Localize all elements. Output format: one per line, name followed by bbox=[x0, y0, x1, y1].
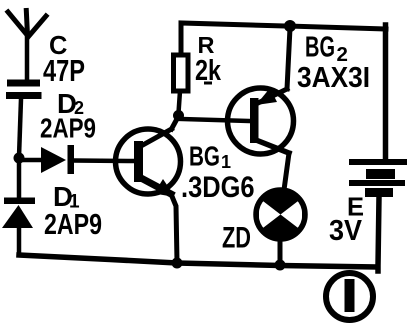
svg-text:1: 1 bbox=[221, 152, 231, 172]
figure mark circled 1 bbox=[326, 273, 373, 320]
svg-text:2AP9: 2AP9 bbox=[44, 209, 102, 241]
node A bbox=[14, 153, 25, 164]
svg-text:BG: BG bbox=[189, 141, 220, 172]
wire top rail bbox=[287, 26, 386, 29]
battery E bbox=[349, 159, 407, 197]
diode D1 bbox=[2, 160, 35, 255]
stray mark under k bbox=[204, 82, 212, 85]
svg-text:.3DG6: .3DG6 bbox=[181, 171, 255, 204]
transistor Q1 BG1 bbox=[116, 129, 181, 197]
capacitor C1 bbox=[6, 80, 42, 100]
transistor Q2 BG2 bbox=[228, 88, 294, 154]
node C bbox=[284, 20, 296, 32]
resistor R1 bbox=[174, 55, 189, 91]
wire bbox=[181, 119, 251, 121]
diode D2 bbox=[41, 145, 74, 174]
wire bbox=[378, 197, 379, 271]
wire bbox=[278, 241, 283, 263]
wire bbox=[171, 194, 177, 262]
wire bbox=[179, 91, 181, 113]
antenna bbox=[8, 11, 46, 81]
svg-text:BG: BG bbox=[305, 32, 335, 64]
svg-text:3AX3I: 3AX3I bbox=[297, 62, 370, 94]
wire bbox=[19, 158, 41, 163]
wire top-left corner bbox=[181, 23, 287, 55]
wire bbox=[172, 117, 179, 129]
node B bbox=[173, 110, 184, 121]
svg-text:3V: 3V bbox=[329, 215, 363, 247]
wire right rail bbox=[383, 25, 389, 160]
lamp ZD bbox=[254, 188, 308, 242]
node E bbox=[275, 260, 286, 271]
wire bbox=[287, 28, 290, 89]
svg-text:ZD: ZD bbox=[222, 222, 251, 255]
svg-text:2AP9: 2AP9 bbox=[40, 113, 96, 144]
wire bottom rail bbox=[19, 255, 375, 267]
node D bbox=[172, 258, 183, 269]
wire bbox=[284, 153, 289, 190]
svg-text:47P: 47P bbox=[43, 54, 85, 88]
wire bbox=[19, 99, 21, 157]
wire bbox=[74, 158, 134, 163]
